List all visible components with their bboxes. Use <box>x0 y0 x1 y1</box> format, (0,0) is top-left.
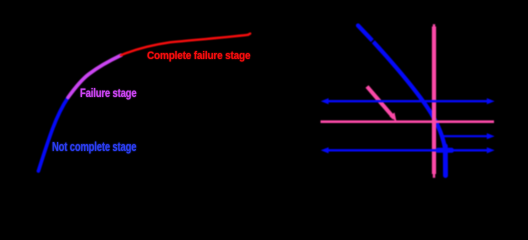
bottom line left arrowhead <box>321 147 329 153</box>
left curve magenta segment (failure stage) <box>68 55 121 97</box>
red curve end tick arrow <box>248 34 250 35</box>
middle blue arrow line (from curve to right) <box>440 135 489 137</box>
pink vertical bottom arrow tip <box>433 173 435 178</box>
pink vertical line <box>432 27 436 175</box>
blue curve bottom arrow tip <box>443 146 448 176</box>
bottom line right arrowhead <box>487 147 495 153</box>
pink diagonal arrowhead <box>390 113 397 122</box>
label: Failure stage (magenta) <box>80 86 136 100</box>
label: Not complete stage (blue) <box>52 139 136 154</box>
top line right arrowhead <box>487 98 495 104</box>
top line left arrowhead <box>321 98 329 104</box>
pink diagonal arrow <box>367 87 394 119</box>
pink horizontal line <box>321 120 495 123</box>
top blue horizontal double-arrow line <box>327 100 489 102</box>
label: Complete failure stage (red) <box>147 50 250 62</box>
right plot: blue descending curve with vertical tail <box>358 26 446 175</box>
pink vertical top arrow tip <box>433 24 435 28</box>
small gap artifact on right curve <box>372 38 377 43</box>
bottom blue horizontal double-arrow line <box>327 149 489 151</box>
left curve blue segment (undercomplete stage) <box>38 98 68 172</box>
left curve red segment (complete failure stage) <box>121 35 248 55</box>
bottom line junction blob at curve crossing <box>438 148 452 153</box>
middle line right arrowhead <box>487 133 495 139</box>
